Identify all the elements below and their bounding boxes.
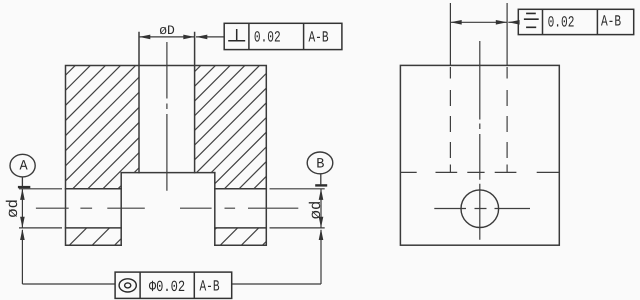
arrow of leader xyxy=(196,35,207,40)
datum B stem xyxy=(320,174,322,185)
left view vertical centerline xyxy=(166,42,168,191)
right view top dimension extension lines xyxy=(450,3,507,65)
hidden step line (dashed horizontal) xyxy=(400,171,559,173)
concentricity symbol xyxy=(119,279,136,292)
arrow right of oD dim xyxy=(183,35,194,40)
cavity walls xyxy=(121,173,215,246)
arrow up od-right xyxy=(319,189,324,200)
cross hole circle xyxy=(461,190,499,228)
svg-text:ød: ød xyxy=(4,199,22,218)
svg-text:ød: ød xyxy=(307,201,325,220)
arrow up od-left xyxy=(20,189,25,200)
right view vertical centerline xyxy=(479,41,481,240)
svg-text:øD: øD xyxy=(159,23,175,38)
od dimension right: extension lines xyxy=(270,189,325,228)
leader from concentricity frame, left side xyxy=(22,230,115,284)
leader to symmetry frame xyxy=(508,21,518,23)
cross hole edges (od) xyxy=(66,189,267,228)
section hatching right foot xyxy=(124,0,507,300)
right view dim line xyxy=(450,21,507,23)
step line xyxy=(121,172,215,174)
left view outline xyxy=(66,33,267,246)
section hatching left material xyxy=(0,0,367,300)
svg-text:B: B xyxy=(316,157,325,173)
arrow up at left leader xyxy=(20,229,25,240)
od dimension left: extension lines xyxy=(19,189,62,228)
datum A stem xyxy=(21,177,23,186)
leader from concentricity frame, right side xyxy=(232,230,321,284)
datum B circle xyxy=(307,152,333,174)
arrow of symmetry leader xyxy=(508,20,519,25)
datum B foot tick xyxy=(315,184,327,186)
svg-text:0.02: 0.02 xyxy=(254,29,281,47)
leader line to perpendicularity frame xyxy=(196,36,224,38)
dim line xyxy=(320,189,322,228)
arrow left of oD dim xyxy=(139,35,150,40)
right view outline xyxy=(400,65,559,245)
arrow down od-right xyxy=(319,217,324,228)
symmetry symbol xyxy=(524,13,539,27)
hole bore edges (oD) with extension lines above xyxy=(139,33,195,173)
left view horizontal centerline xyxy=(36,207,298,209)
datum A foot tick xyxy=(18,186,30,188)
svg-text:A-B: A-B xyxy=(601,13,621,31)
feature control frame: concentricity 0.02 A-B xyxy=(115,272,232,298)
hidden hole line left (dashed) xyxy=(449,67,451,172)
svg-text:A-B: A-B xyxy=(308,28,328,46)
dim line xyxy=(21,189,23,228)
arrow right right-view dim xyxy=(496,20,507,25)
datum A circle xyxy=(10,154,35,177)
arrow left right-view dim xyxy=(450,20,461,25)
section hatching right material xyxy=(0,0,501,300)
feature control frame: symmetry 0.02 A-B xyxy=(518,9,633,34)
hidden hole line right (dashed) xyxy=(506,67,508,172)
svg-text:Φ0.02: Φ0.02 xyxy=(149,278,185,296)
arrow up at right leader xyxy=(319,229,324,240)
svg-text:0.02: 0.02 xyxy=(548,13,575,31)
dimension oD: extension + dim line xyxy=(139,36,195,38)
perpendicularity symbol xyxy=(228,29,245,41)
svg-text:A-B: A-B xyxy=(199,278,219,296)
arrow down od-left xyxy=(20,217,25,228)
svg-text:A: A xyxy=(19,159,28,175)
right view horizontal centerline xyxy=(434,208,530,210)
section hatching left foot xyxy=(0,0,360,300)
feature control frame: perpendicularity 0.02 A-B xyxy=(224,23,342,49)
